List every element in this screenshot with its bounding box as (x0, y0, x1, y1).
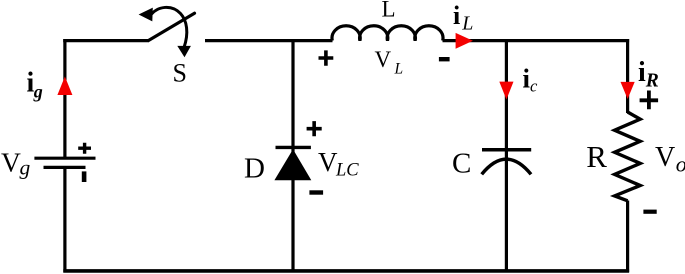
switch rotation arrow head left (139, 8, 153, 22)
svg-text:o: o (676, 152, 685, 177)
svg-text:i: i (453, 1, 460, 30)
wire top-middle horizontal (205, 39, 333, 42)
svg-text:LC: LC (335, 160, 359, 180)
svg-text:S: S (173, 58, 187, 87)
current arrow ig (57, 77, 72, 96)
svg-text:V: V (655, 142, 675, 173)
wire left vertical bottom (63, 168, 66, 272)
svg-text:c: c (530, 77, 538, 96)
current arrow iL (456, 33, 473, 49)
svg-text:L: L (394, 60, 404, 77)
svg-text:V: V (318, 147, 338, 177)
capacitor C curved plate (482, 159, 531, 174)
minus sign VL (439, 57, 450, 61)
plus sign VLC (307, 121, 322, 136)
diode D cathode bar (276, 146, 311, 149)
plus sign VL (319, 50, 334, 65)
switch rotation arrow head bottom (177, 46, 191, 57)
battery minus bar (82, 171, 87, 182)
diode D triangle (274, 149, 311, 180)
svg-text:C: C (452, 147, 471, 179)
minus sign VLC (309, 190, 323, 194)
svg-text:R: R (586, 139, 607, 174)
wire right vertical top (626, 39, 629, 113)
plus sign Vo (640, 91, 659, 110)
minus sign Vo (643, 210, 656, 214)
switch rotation arrow arc (150, 7, 187, 47)
svg-text:R: R (645, 71, 659, 92)
wire right vertical bottom (626, 201, 629, 273)
wire left vertical top (63, 39, 66, 158)
wire top-right horizontal (443, 39, 630, 42)
resistor R zigzag (615, 112, 641, 201)
battery Vg long plate (34, 157, 95, 160)
capacitor branch wire (505, 39, 508, 272)
svg-text:L: L (382, 0, 396, 22)
svg-text:V: V (1, 146, 21, 177)
svg-text:g: g (20, 156, 31, 180)
diode branch wire (291, 39, 294, 272)
current arrow iR (621, 82, 635, 99)
svg-text:L: L (461, 12, 473, 34)
capacitor C top plate (482, 148, 531, 152)
bottom wire (63, 269, 629, 273)
svg-text:i: i (638, 57, 646, 88)
svg-text:V: V (375, 47, 392, 72)
inductor L (332, 26, 443, 41)
battery plus sign (78, 143, 91, 154)
switch S blade (149, 13, 195, 40)
current arrow ic (499, 82, 513, 100)
battery Vg short plate (44, 166, 86, 169)
wire top-left horizontal (63, 39, 149, 42)
svg-text:g: g (33, 81, 43, 101)
svg-text:D: D (244, 153, 265, 185)
